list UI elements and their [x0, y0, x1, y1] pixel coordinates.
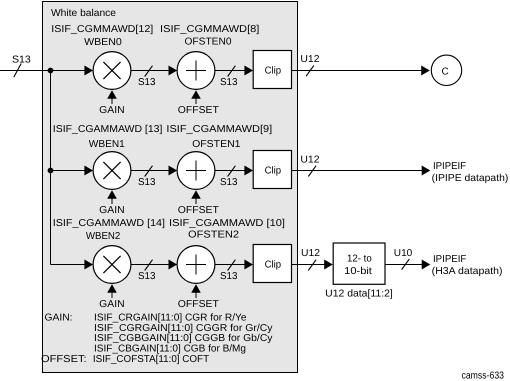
label OFSTEN2 — [188, 230, 239, 241]
svg-text:ISIF_COFSTA[11:0] COFT: ISIF_COFSTA[11:0] COFT — [93, 354, 209, 365]
wire converter to IPIPEIF with U10 bus mark — [385, 259, 430, 270]
svg-text:OFFSET: OFFSET — [178, 105, 219, 116]
svg-text:S13: S13 — [138, 177, 156, 188]
svg-text:S13: S13 — [138, 77, 156, 88]
OFFSET arrow row 1 — [191, 90, 201, 104]
OFFSET arrow row 3 — [191, 284, 201, 298]
svg-text:S13: S13 — [220, 271, 238, 282]
wire adder to clip row 2 with S13 bus mark — [215, 166, 253, 177]
svg-text:Clip: Clip — [265, 65, 282, 76]
converter box 12- to 10-bit — [333, 243, 385, 284]
svg-text:IPIPEIF: IPIPEIF — [433, 161, 466, 172]
label U12 row 1 — [300, 54, 320, 65]
wire vertical trunk — [50, 70, 52, 265]
register label ISIF_CGMMAWD[8] — [160, 24, 260, 35]
label WBEN1 — [89, 139, 125, 150]
svg-text:U12: U12 — [301, 248, 320, 259]
svg-text:S13: S13 — [220, 77, 238, 88]
svg-text:IPIPEIF: IPIPEIF — [433, 254, 466, 265]
label IPIPEIF (IPIPE datapath) — [432, 161, 509, 184]
label OFFSET row 3 — [178, 299, 219, 310]
svg-text:12- to: 12- to — [347, 254, 372, 265]
svg-text:OFFSET: OFFSET — [178, 205, 219, 216]
wire multiplier to adder row 1 with S13 bus mark — [131, 66, 177, 77]
wire branch row 2 — [51, 170, 87, 172]
legend OFFSET register definition — [41, 354, 209, 365]
white balance block enclosure — [43, 2, 298, 373]
svg-text:Clip: Clip — [265, 259, 282, 270]
svg-text:OFSTEN1: OFSTEN1 — [192, 139, 241, 150]
label GAIN row 3 — [99, 299, 124, 310]
junction row 1 — [48, 68, 54, 74]
svg-text:WBEN0: WBEN0 — [84, 37, 122, 48]
multiplier row 3 — [84, 246, 130, 284]
register label ISIF_CGAMMAWD [13] — [53, 124, 163, 135]
svg-text:GAIN: GAIN — [99, 299, 124, 310]
multiplier row 2 — [84, 152, 130, 190]
svg-text:ISIF_CGMMAWD[12]: ISIF_CGMMAWD[12] — [51, 24, 153, 35]
multiplier row 1 — [84, 52, 130, 90]
svg-text:10-bit: 10-bit — [344, 266, 372, 277]
node C output circle — [431, 55, 461, 85]
register label ISIF_CGAMMAWD [10] — [169, 218, 285, 229]
GAIN arrow row 2 — [107, 190, 117, 204]
GAIN arrow row 3 — [107, 284, 117, 298]
label WBEN2 — [86, 231, 121, 242]
label S13 row 3 a — [138, 271, 156, 282]
svg-text:WBEN1: WBEN1 — [89, 139, 125, 150]
register label ISIF_CGAMMAWD[9] — [166, 124, 272, 135]
svg-text:ISIF_CGMMAWD[8]: ISIF_CGMMAWD[8] — [160, 24, 260, 35]
svg-text:C: C — [442, 67, 449, 78]
svg-text:U12: U12 — [300, 155, 320, 166]
label GAIN row 1 — [99, 105, 124, 116]
label U12 data[11:2] — [325, 288, 393, 299]
label U12 row 2 — [300, 155, 320, 166]
wire clip to 12-to-10-bit box with U12 bus mark — [292, 260, 333, 271]
svg-text:OFFSET:: OFFSET: — [41, 354, 87, 365]
wire clip to C circle with U12 bus mark — [292, 65, 430, 76]
svg-text:U12: U12 — [300, 54, 320, 65]
svg-text:OFSTEN0: OFSTEN0 — [185, 37, 232, 48]
adder row 2 — [177, 152, 215, 190]
label camss-633 — [462, 370, 505, 381]
label S13 row 1 b — [220, 77, 238, 88]
clip box row 2 — [253, 151, 291, 189]
svg-text:White balance: White balance — [51, 8, 116, 19]
svg-text:S13: S13 — [138, 271, 156, 282]
junction row 2 — [48, 168, 54, 174]
svg-text:U10: U10 — [394, 248, 413, 259]
svg-text:GAIN: GAIN — [99, 105, 124, 116]
register label ISIF_CGAMMAWD [14] — [53, 218, 165, 229]
label U10 — [394, 248, 413, 259]
wire branch row 3 — [51, 264, 87, 266]
svg-text:(IPIPE datapath): (IPIPE datapath) — [432, 173, 509, 184]
label White balance — [51, 8, 116, 19]
svg-text:ISIF_CGAMMAWD [13]: ISIF_CGAMMAWD [13] — [53, 124, 163, 135]
wire multiplier to adder row 2 with S13 bus mark — [131, 166, 177, 177]
label S13 row 1 a — [138, 77, 156, 88]
clip box row 1 — [253, 51, 291, 89]
svg-text:WBEN2: WBEN2 — [86, 231, 121, 242]
label OFFSET row 2 — [178, 205, 219, 216]
label S13 row 2 a — [138, 177, 156, 188]
wire adder to clip row 1 with S13 bus mark — [215, 66, 253, 77]
svg-text:S13: S13 — [220, 177, 238, 188]
svg-text:GAIN: GAIN — [99, 205, 124, 216]
svg-text:(H3A datapath): (H3A datapath) — [432, 266, 503, 277]
wire adder to clip row 3 with S13 bus mark — [215, 260, 253, 271]
svg-text:camss-633: camss-633 — [462, 370, 505, 381]
svg-text:GAIN:: GAIN: — [45, 313, 73, 324]
label S13 row 3 b — [220, 271, 238, 282]
label S13 row 2 b — [220, 177, 238, 188]
label OFSTEN0 — [185, 37, 232, 48]
svg-text:ISIF_CGAMMAWD [14]: ISIF_CGAMMAWD [14] — [53, 218, 165, 229]
label IPIPEIF (H3A datapath) — [432, 254, 503, 277]
OFFSET arrow row 2 — [191, 190, 201, 204]
label U12 row 3 — [301, 248, 320, 259]
label OFFSET row 1 — [178, 105, 219, 116]
label OFSTEN1 — [192, 139, 241, 150]
adder row 3 — [177, 246, 215, 284]
node S13 input label — [12, 55, 31, 66]
clip box row 3 — [253, 245, 291, 283]
wire input S13 — [0, 64, 86, 78]
svg-text:OFSTEN2: OFSTEN2 — [188, 230, 239, 241]
adder row 1 — [177, 52, 215, 90]
svg-text:Clip: Clip — [265, 165, 282, 176]
wire clip to IPIPEIF with U12 bus mark — [292, 166, 431, 177]
svg-text:ISIF_CGAMMAWD[9]: ISIF_CGAMMAWD[9] — [166, 124, 272, 135]
svg-text:U12 data[11:2]: U12 data[11:2] — [325, 288, 393, 299]
svg-text:OFFSET: OFFSET — [178, 299, 219, 310]
legend GAIN register definitions — [45, 313, 273, 355]
wire multiplier to adder row 3 with S13 bus mark — [131, 260, 177, 271]
svg-text:ISIF_CGAMMAWD [10]: ISIF_CGAMMAWD [10] — [169, 218, 285, 229]
label GAIN row 2 — [99, 205, 124, 216]
GAIN arrow row 1 — [107, 90, 117, 104]
register label ISIF_CGMMAWD[12] — [51, 24, 153, 35]
label WBEN0 — [84, 37, 122, 48]
